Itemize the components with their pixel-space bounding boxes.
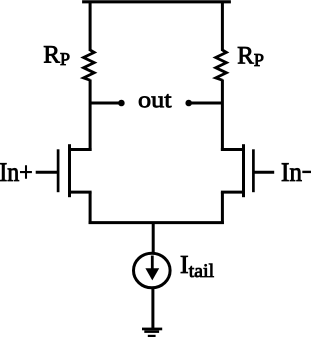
wire: left branch from resistor to drain of M1 — [89, 80, 92, 151]
label In+ — [0, 163, 31, 181]
wire: tail rail joining both sources — [89, 221, 224, 224]
wire: out stub left — [90, 102, 121, 105]
VDD supply rail (top wire) — [82, 0, 231, 3]
label RP (right) — [238, 47, 263, 66]
current source Itail (circle with down arrow) — [134, 253, 171, 288]
wire: source of M2 down to tail rail — [221, 192, 224, 224]
wire: gate lead of M1 — [36, 171, 58, 174]
wire: right branch from rail to resistor RP — [221, 1, 224, 52]
label out — [139, 94, 171, 107]
ground — [142, 328, 162, 337]
wire: out stub right — [189, 102, 222, 105]
label Itail — [181, 256, 214, 277]
wire: gate lead of M2 — [254, 171, 274, 174]
wire: current source to ground — [151, 288, 154, 329]
resistor RP (left) — [84, 50, 95, 80]
wire: left branch from rail to resistor RP — [89, 1, 92, 52]
label In- minus sign — [302, 171, 311, 173]
label RP (left) — [44, 46, 69, 65]
wire: right branch from resistor to drain of M2 — [221, 80, 224, 151]
wire: tail rail down to current source — [152, 223, 155, 253]
label In- — [282, 163, 302, 181]
node out (left junction dot) — [118, 100, 125, 107]
transistor M1 (In+, left NMOS): gate bar, channel bar, drain lead, source lead — [58, 144, 92, 197]
node out (right junction dot) — [185, 100, 192, 107]
wire: source of M1 down to tail rail — [89, 192, 92, 224]
resistor RP (right) — [216, 50, 227, 80]
transistor M2 (In-, right NMOS): gate bar, channel bar, drain lead, source lead — [221, 144, 254, 197]
